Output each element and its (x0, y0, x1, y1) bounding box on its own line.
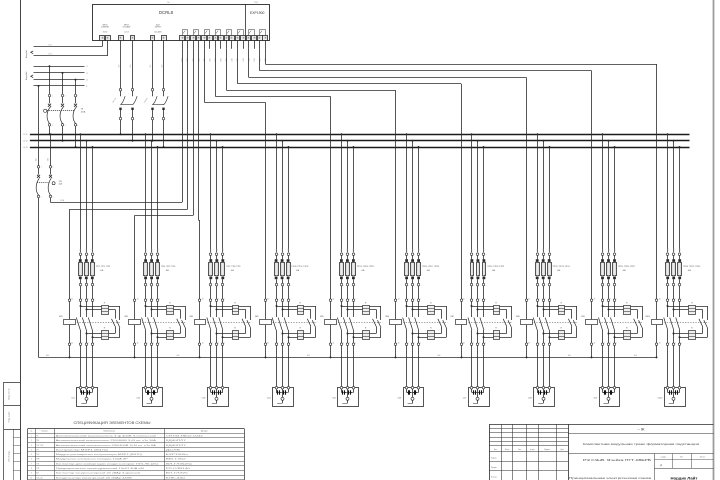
svg-text:Предохранитель цилиндрический: Предохранитель цилиндрический 14х51 40А … (56, 467, 146, 470)
svg-text:R: R (626, 328, 628, 330)
svg-text:3: 3 (53, 167, 54, 169)
discharge resistor R8a wiring (537, 305, 577, 310)
svg-text:Контроллер МФР1 (8/470): Контроллер МФР1 (8/470) (56, 448, 109, 451)
svg-text:2: 2 (278, 342, 279, 344)
svg-text:С63: С63 (418, 248, 420, 251)
svg-text:С06: С06 (397, 398, 402, 400)
discharge resistor R2a (167, 302, 174, 314)
svg-text:С04: С04 (130, 64, 132, 67)
svg-text:ТЛР7, ТЛР8, ТЛР9: ТЛР7, ТЛР8, ТЛР9 (226, 266, 240, 268)
discharge resistor R4a (297, 302, 304, 314)
svg-text:2: 2 (52, 125, 53, 127)
branch 5 phase wires from buses (341, 133, 356, 252)
svg-text:А2: А2 (267, 342, 269, 345)
contactor K7 main contacts (468, 298, 513, 387)
discharge resistor R6a wiring (406, 305, 447, 310)
fuse group FU6 ТЛР16-ТЛР18 40А (405, 253, 440, 299)
branch 7 phase wires from buses (471, 133, 486, 252)
branch 8 phase wires from buses (537, 133, 552, 252)
svg-text:ТЛР13, ТЛР14, ТЛР15: ТЛР13, ТЛР14, ТЛР15 (357, 266, 374, 268)
svg-text:2: 2 (31, 440, 32, 442)
svg-text:СН744-НВ12-0042: СН744-НВ12-0042 (166, 436, 203, 438)
svg-text:ТФ1: ТФ1 (59, 180, 63, 183)
svg-text:Взам. инв. №: Взам. инв. № (8, 388, 11, 399)
wire bus L1 to control breaker ТФ1 (48, 133, 52, 165)
svg-text:ТНР: ТНР (36, 459, 39, 461)
svg-text:3: 3 (480, 254, 481, 256)
svg-text:С33: С33 (223, 248, 225, 251)
svg-text:2: 2 (604, 285, 605, 287)
svg-text:ТТ1.2: ТТ1.2 (48, 54, 52, 56)
svg-text:40А: 40А (427, 269, 431, 272)
svg-text:Лист: Лист (680, 457, 684, 459)
svg-text:8: 8 (31, 468, 32, 470)
aux contacts K8 resistor loop (568, 306, 576, 337)
svg-text:Разраб.: Разраб. (491, 458, 497, 460)
svg-text:N06: N06 (568, 355, 571, 357)
svg-text:2: 2 (408, 342, 409, 344)
fuse group FU8 ТЛР22-ТЛР24 40А (536, 253, 570, 299)
contactor K5 main contacts (337, 298, 382, 387)
svg-text:5: 5 (159, 254, 160, 256)
fuse group FU1 ТЛР1-ТЛР3 40А (79, 253, 111, 299)
discharge resistor R10a wiring (667, 305, 708, 310)
svg-text:L3 03: L3 03 (23, 147, 27, 149)
svg-text:1: 1 (278, 298, 279, 300)
discharge resistor R8a (558, 302, 565, 314)
svg-text:C12: C12 (243, 58, 245, 61)
svg-text:С21: С21 (145, 248, 147, 251)
discharge resistor R7b wiring (477, 333, 512, 339)
svg-text:КМ10: КМ10 (645, 316, 650, 318)
svg-text:6: 6 (355, 285, 356, 287)
svg-text:5: 5 (355, 254, 356, 256)
svg-text:С010: С010 (657, 398, 663, 400)
title block document code (568, 427, 713, 434)
svg-text:С72: С72 (478, 248, 480, 251)
contactor K1 main contacts (76, 298, 121, 387)
svg-text:Наименование: Наименование (103, 431, 115, 433)
discharge resistor R9b wiring (608, 333, 643, 339)
capacitor C7 box (463, 386, 490, 406)
svg-text:А2: А2 (594, 342, 596, 345)
svg-text:Подпись: Подпись (544, 449, 550, 451)
discharge resistor R5b (363, 328, 370, 340)
svg-text:3: 3 (545, 298, 546, 300)
svg-text:Конденсатор косинусный 25 кВАр: Конденсатор косинусный 25 кВАр 440В (56, 476, 132, 479)
fuse group FU3 ТЛР7-ТЛР9 40А (209, 253, 241, 299)
svg-text:ТЛР19, ТЛР20, ТЛР21: ТЛР19, ТЛР20, ТЛР21 (487, 266, 504, 268)
svg-text:4: 4 (31, 449, 32, 451)
svg-text:Комплектная модульная транс фо: Комплектная модульная транс форматорная … (583, 442, 700, 446)
svg-text:№: № (30, 430, 32, 433)
svg-text:Листов: Листов (700, 457, 705, 459)
svg-text:40А: 40А (361, 269, 365, 272)
aux contacts K4 resistor loop (307, 306, 315, 337)
aux contacts K3 resistor loop (242, 306, 250, 337)
svg-text:РЛ-СЛВ140: РЛ-СЛВ140 (166, 468, 190, 470)
svg-text:ТФ2 6А: ТФ2 6А (111, 96, 117, 103)
wire L2 to QF pole 2 (62, 72, 64, 95)
svg-text:Артикул: Артикул (201, 430, 207, 433)
svg-text:7: 7 (31, 463, 32, 465)
wire U1 voltage input to breaker ТФ2 (119, 40, 133, 89)
control wire from U1 output 3 to contactor K3 coil (199, 49, 200, 299)
wire L3 to QF pole 3 (75, 79, 77, 95)
svg-text:N06: N06 (438, 355, 441, 357)
svg-text:С42: С42 (282, 248, 284, 251)
svg-text:Автоматический выключатель 230: Автоматический выключатель 230/400В 3+N … (56, 439, 158, 442)
svg-text:№ док.: № док. (530, 448, 535, 451)
svg-text:АВ1: АВ1 (35, 158, 38, 161)
svg-text:Ввод №1: Ввод №1 (25, 49, 28, 58)
svg-text:EXP1900: EXP1900 (250, 11, 264, 15)
discharge resistor R5a (363, 302, 370, 314)
svg-text:Автоматический выключатель 230: Автоматический выключатель 230/400В 3+N … (56, 444, 158, 447)
svg-text:R: R (626, 302, 628, 304)
svg-text:С31: С31 (211, 248, 213, 251)
svg-text:ТФ1: ТФ1 (36, 439, 39, 442)
svg-text:6: 6 (616, 285, 617, 287)
coil return line N06 (39, 355, 657, 357)
discharge resistor R4a wiring (276, 305, 316, 310)
svg-text:R: R (104, 328, 106, 330)
svg-text:5: 5 (31, 454, 32, 456)
fuse group FU10 ТЛР28-ТЛР30 40А (666, 253, 701, 299)
wire ТФ2 to buses (120, 120, 134, 142)
fuse group FU9 ТЛР25-ТЛР27 40А (601, 253, 636, 299)
svg-text:С05: С05 (332, 398, 337, 400)
aux contacts K1 resistor loop (112, 306, 120, 337)
svg-text:КМ1: КМ1 (59, 316, 63, 318)
discharge resistor R9a wiring (602, 305, 643, 310)
svg-text:5: 5 (420, 298, 421, 300)
svg-text:С43: С43 (288, 248, 290, 251)
svg-text:КМ9: КМ9 (581, 316, 585, 318)
capacitor C6 box (397, 386, 423, 406)
title block object name and sheet grid (569, 454, 713, 480)
svg-text:R: R (169, 302, 171, 304)
svg-text:6: 6 (420, 285, 421, 287)
discharge resistor R7b (493, 328, 500, 340)
branch 2 phase wires from buses (145, 133, 160, 252)
controller U1 DCRL8 outline (93, 2, 270, 41)
svg-text:2: 2 (539, 342, 540, 344)
svg-text:С13: С13 (92, 248, 94, 251)
U1 relay output contact symbols (183, 30, 266, 36)
contactor K10 coil КМ10 (645, 298, 662, 359)
discharge resistor R10b (689, 328, 696, 340)
contactor K6 main contacts (403, 298, 448, 387)
svg-text:А1: А1 (528, 298, 530, 301)
terminal wire number labels (182, 40, 267, 62)
svg-text:6: 6 (94, 342, 95, 344)
svg-text:6: 6 (159, 342, 160, 344)
svg-text:5: 5 (224, 298, 225, 300)
svg-text:2: 2 (82, 342, 83, 344)
svg-text:С32: С32 (217, 248, 219, 251)
branch 9 phase wires from buses (602, 133, 617, 252)
svg-text:VOLTAGE: VOLTAGE (123, 26, 132, 29)
svg-text:ВЛ-ГЛЭ25: ВЛ-ГЛЭ25 (166, 473, 188, 475)
control wire from U1 output 10 to contactor K10 coil (265, 49, 657, 299)
svg-text:Контактор для коммутации конде: Контактор для коммутации конденсаторов Т… (56, 462, 159, 465)
svg-text:N06: N06 (177, 355, 180, 357)
U1/U2 relay output terminal row (180, 36, 268, 41)
control wire from U1 output 1 to contactor K1 coil (69, 49, 187, 299)
capacitor C8 box (528, 386, 554, 406)
svg-text:ТЛР25, ТЛР26, ТЛР27: ТЛР25, ТЛР26, ТЛР27 (618, 266, 635, 268)
svg-text:КД40ПЛ7: КД40ПЛ7 (166, 440, 186, 442)
svg-text:3: 3 (218, 254, 219, 256)
svg-text:4: 4 (675, 285, 676, 287)
svg-text:С101: С101 (668, 248, 670, 252)
aux breaker ТФ3 6А (143, 88, 168, 119)
discharge resistor R1b (102, 328, 109, 340)
svg-text:40А: 40А (623, 269, 627, 272)
svg-text:С04: С04 (267, 398, 272, 400)
svg-text:3: 3 (88, 298, 89, 300)
svg-text:2: 2 (147, 285, 148, 287)
wire С02А ТФ1 pole2 to controller common (50, 49, 182, 203)
capacitor C9 box (593, 386, 619, 406)
svg-text:С05: С05 (150, 64, 152, 67)
svg-text:ДСЛ8: ДСЛ8 (166, 449, 180, 451)
svg-text:R: R (234, 328, 236, 330)
svg-text:N06: N06 (307, 355, 310, 357)
svg-text:А1: А1 (659, 298, 661, 301)
svg-text:4: 4 (88, 285, 89, 287)
svg-text:Р: Р (660, 463, 662, 467)
wire L1 to QF pole 1 (49, 65, 51, 95)
svg-text:1: 1 (343, 254, 344, 256)
svg-text:N06: N06 (46, 355, 49, 357)
svg-text:Лист: Лист (518, 449, 522, 451)
svg-text:Обознач.: Обознач. (41, 431, 48, 433)
svg-text:5: 5 (94, 254, 95, 256)
svg-text:6: 6 (486, 285, 487, 287)
svg-text:C10: C10 (232, 58, 234, 61)
discharge resistor R1b wiring (86, 333, 120, 339)
svg-text:С07: С07 (463, 398, 468, 400)
svg-text:1: 1 (669, 298, 670, 300)
svg-text:А1: А1 (463, 298, 465, 301)
svg-text:1: 1 (473, 298, 474, 300)
wire ТФ1 pole1 to coil common line N06 (38, 198, 40, 358)
discharge resistor R9a (624, 302, 631, 314)
svg-text:1: 1 (278, 254, 279, 256)
contactor K9 coil КМ9 (581, 298, 597, 359)
svg-text:40А: 40А (557, 269, 561, 272)
discharge resistor R5b wiring (347, 333, 381, 339)
svg-text:3: 3 (88, 254, 89, 256)
aux contacts K5 resistor loop (373, 306, 381, 337)
svg-text:ТЛР10, ТЛР11, ТЛР12: ТЛР10, ТЛР11, ТЛР12 (291, 266, 308, 268)
svg-text:DCRL8: DCRL8 (159, 10, 174, 15)
svg-text:5: 5 (290, 298, 291, 300)
control wire from U1 output 2 to contactor K2 coil (135, 49, 194, 299)
svg-text:2: 2 (212, 342, 213, 344)
svg-text:ТЛР4, ТЛР5, ТЛР6: ТЛР4, ТЛР5, ТЛР6 (161, 266, 175, 268)
svg-text:5: 5 (94, 298, 95, 300)
svg-text:6: 6 (31, 459, 32, 461)
contactor K1 coil КМ1 (59, 298, 75, 359)
branch 1 phase wires from buses (80, 133, 95, 252)
svg-text:СПЕЦИФИКАЦИЯ ЭЛЕМЕНТОВ СХЕМЫ: СПЕЦИФИКАЦИЯ ЭЛЕМЕНТОВ СХЕМЫ (74, 421, 151, 425)
svg-text:SUPPLY: SUPPLY (155, 27, 162, 29)
svg-text:Инв. № подл.: Инв. № подл. (8, 450, 11, 462)
svg-text:4: 4 (284, 342, 285, 344)
svg-text:Кол.уч: Кол.уч (505, 449, 510, 451)
svg-text:1: 1 (41, 167, 42, 169)
svg-text:L3: L3 (86, 80, 88, 82)
svg-text:R: R (300, 328, 302, 330)
svg-text:4: 4 (675, 342, 676, 344)
svg-text:ТН: ТН (36, 449, 39, 451)
svg-text:10: 10 (30, 477, 32, 479)
svg-text:С23: С23 (157, 248, 159, 251)
svg-text:6: 6 (681, 342, 682, 344)
aux contacts K9 resistor loop (634, 306, 643, 337)
svg-text:С22: С22 (151, 248, 153, 251)
svg-text:C08: C08 (221, 58, 223, 61)
svg-text:2: 2 (604, 342, 605, 344)
sense breaker ТФ2 6А (111, 88, 137, 119)
wire U1 aux supply to breaker ТФ3 (150, 40, 164, 89)
svg-text:R: R (365, 302, 367, 304)
svg-text:4: 4 (53, 196, 54, 198)
contactor K4 coil КМ4 (255, 298, 272, 359)
svg-text:100-440V: 100-440V (154, 32, 162, 34)
svg-text:Дата: Дата (561, 449, 564, 451)
svg-text:6: 6 (224, 285, 225, 287)
svg-text:А2: А2 (333, 342, 335, 345)
svg-text:2: 2 (473, 342, 474, 344)
discharge resistor R7a (493, 302, 500, 314)
svg-text:С02А: С02А (60, 199, 65, 202)
svg-text:L1 01: L1 01 (23, 134, 27, 136)
sheet frame right border (713, 0, 715, 480)
svg-text:2: 2 (669, 342, 670, 344)
svg-text:3: 3 (65, 95, 66, 97)
svg-text:6: 6 (420, 342, 421, 344)
svg-text:С91: С91 (602, 248, 604, 251)
svg-text:2: 2 (343, 285, 344, 287)
control wire from U1 output 4 to contactor K4 coil (204, 49, 265, 299)
discharge resistor R6b wiring (412, 333, 447, 339)
incoming line L3 (34, 80, 88, 82)
svg-text:РЭ СЭнВ. Ячейка НГТ-08ЕРБ: РЭ СЭнВ. Ячейка НГТ-08ЕРБ (583, 459, 652, 462)
svg-text:3: 3 (349, 254, 350, 256)
contactor K3 coil КМ3 (190, 298, 206, 359)
svg-text:Стадия: Стадия (661, 457, 666, 459)
svg-text:КМ7: КМ7 (451, 316, 455, 318)
svg-text:1: 1 (147, 298, 148, 300)
svg-text:5: 5 (485, 298, 486, 300)
svg-text:6: 6 (551, 342, 552, 344)
fuse group FU7 ТЛР19-ТЛР21 40А (470, 253, 504, 299)
svg-text:L2 02: L2 02 (23, 141, 27, 143)
svg-text:Модульная клеммная колодка 100: Модульная клеммная колодка 100А 3Р (56, 458, 128, 461)
fuse group FU2 ТЛР4-ТЛР6 40А (144, 253, 176, 299)
svg-text:А1: А1 (137, 298, 139, 301)
svg-text:А2: А2 (398, 342, 400, 345)
discharge resistor R4b (297, 328, 304, 340)
svg-text:С09: С09 (593, 398, 598, 400)
contactor K6 coil КМ6 (385, 298, 401, 359)
svg-text:С12: С12 (86, 248, 88, 251)
aux contacts K2 resistor loop (177, 306, 186, 337)
svg-text:А2: А2 (137, 342, 139, 345)
contactor K9 main contacts (598, 298, 643, 387)
left margin stamp boxes (4, 382, 21, 480)
discharge resistor R2b wiring (151, 333, 186, 339)
svg-text:С51: С51 (341, 248, 343, 251)
svg-text:4: 4 (218, 342, 219, 344)
svg-text:L2: L2 (86, 73, 88, 75)
svg-text:С71: С71 (472, 248, 474, 251)
U1 input voltage terminals L2 L3 (119, 25, 135, 41)
contactor K2 coil КМ2 (124, 298, 140, 359)
svg-text:5: 5 (77, 95, 78, 97)
svg-text:2: 2 (147, 342, 148, 344)
incoming line N (34, 86, 89, 88)
svg-text:3: 3 (479, 298, 480, 300)
svg-text:А1: А1 (333, 298, 335, 301)
svg-text:3: 3 (153, 254, 154, 256)
discharge resistor R2a wiring (145, 305, 186, 310)
svg-text:2: 2 (212, 285, 213, 287)
svg-text:1: 1 (539, 298, 540, 300)
capacitor C4 box (267, 386, 294, 406)
svg-text:ТН2: ТН2 (254, 2, 259, 4)
svg-text:R: R (234, 302, 236, 304)
svg-text:L1: L1 (86, 66, 88, 68)
svg-text:КМ: КМ (36, 473, 39, 475)
svg-text:R: R (430, 328, 432, 330)
svg-text:6: 6 (159, 285, 160, 287)
svg-text:5: 5 (355, 298, 356, 300)
svg-text:L2 L3: L2 L3 (124, 32, 128, 34)
svg-text:6: 6 (290, 342, 291, 344)
svg-text:40А: 40А (231, 269, 235, 272)
svg-text:1: 1 (31, 436, 32, 438)
svg-text:А1: А1 (202, 298, 204, 301)
svg-text:2: 2 (82, 285, 83, 287)
svg-text:2: 2 (669, 285, 670, 287)
svg-text:1: 1 (82, 298, 83, 300)
wire QF1 pole2 to bus L2 (62, 126, 64, 142)
svg-text:С02: С02 (48, 158, 50, 161)
svg-text:С01: С01 (71, 398, 76, 400)
svg-text:4: 4 (65, 125, 66, 127)
svg-text:4: 4 (88, 342, 89, 344)
branch 4 phase wires from buses (276, 133, 290, 252)
svg-text:1: 1 (212, 254, 213, 256)
svg-text:ТЛР: ТЛР (36, 468, 39, 470)
svg-text:S1 S2: S1 S2 (103, 32, 108, 34)
svg-text:С81: С81 (537, 248, 539, 251)
sheet frame left border (20, 0, 22, 480)
svg-text:R: R (691, 328, 693, 330)
svg-text:R: R (365, 328, 367, 330)
incoming feeder arrow Ввод №1 (25, 49, 33, 58)
svg-text:ТН: ТН (167, 2, 170, 4)
incoming line L1 (34, 66, 88, 68)
wire QF1 pole3 to bus L3 (75, 126, 77, 148)
svg-text:R: R (495, 328, 497, 330)
svg-text:R: R (561, 328, 563, 330)
